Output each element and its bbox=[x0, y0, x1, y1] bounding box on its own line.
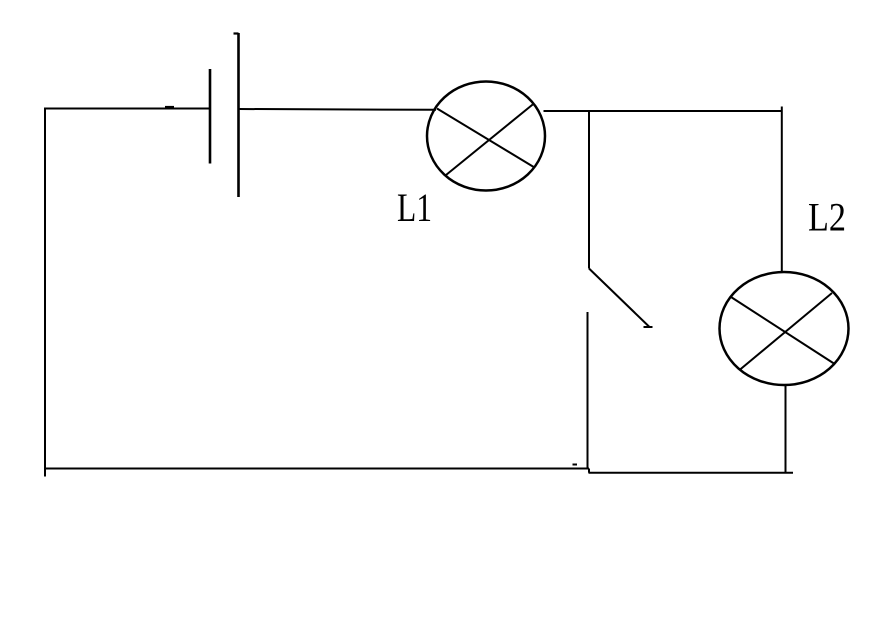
wire joint bump on top-left wire bbox=[165, 106, 174, 109]
lamp L1 circle bbox=[427, 82, 545, 191]
battery B1 long plate (positive) bbox=[237, 33, 240, 197]
svg-text:L1: L1 bbox=[397, 185, 432, 230]
wire right vertical lower (lamp L2 to bottom) bbox=[785, 385, 787, 473]
wire right vertical upper (to lamp L2) bbox=[781, 107, 783, 273]
lamp L1 cross line (upper-left to lower-right) bbox=[437, 109, 534, 168]
lamp L2 cross line (lower-left to upper-right) bbox=[740, 293, 833, 370]
lamp L2 circle bbox=[720, 272, 849, 385]
switch S1 blade end tick bbox=[644, 326, 653, 328]
wire middle branch upper vertical bbox=[588, 112, 590, 269]
wire battery to lamp L1 bbox=[239, 108, 436, 111]
wire lamp L1 to top-right corner bbox=[544, 110, 782, 112]
wire top-left horizontal (battery negative lead) bbox=[44, 108, 209, 110]
wire middle branch lower vertical (switch fixed contact) bbox=[587, 312, 589, 469]
wire bottom right horizontal bbox=[589, 472, 794, 474]
battery B1 short plate (negative) bbox=[209, 69, 212, 164]
switch S1 blade (open) bbox=[589, 269, 650, 328]
lamp L1 cross line (lower-left to upper-right) bbox=[446, 105, 533, 176]
wire bottom step jog at middle junction bbox=[588, 469, 590, 473]
battery B1 top nub bbox=[234, 32, 239, 34]
lamp L2 cross line (upper-left to lower-right) bbox=[731, 297, 835, 364]
wire stub tick above bottom wire bbox=[573, 464, 578, 466]
wire bottom left horizontal bbox=[45, 468, 589, 470]
svg-text:L2: L2 bbox=[808, 195, 846, 240]
wire left vertical side bbox=[44, 108, 46, 477]
